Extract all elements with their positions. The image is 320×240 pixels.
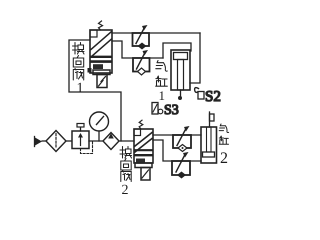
char 阀 [121, 171, 131, 182]
lubricator [103, 133, 119, 150]
valve 1 stripe band 1 [91, 56, 111, 58]
valve 2 pilot box top-left [134, 129, 141, 136]
svg-text:2: 2 [122, 183, 129, 198]
valve 1 diagonal flow lines [91, 32, 112, 50]
cylinder 2 piston [203, 152, 215, 157]
char 阀 [73, 69, 83, 81]
regulator [72, 124, 93, 154]
label 气缸 1 [156, 61, 168, 87]
svg-text:2: 2 [220, 150, 228, 167]
valve 1 stripe band 2 [91, 60, 111, 63]
char 气 [156, 61, 168, 72]
flow control valve 4 [172, 152, 190, 179]
cylinder 2 rod inside [207, 127, 212, 152]
limit switch S3 symbol [152, 103, 163, 115]
cylinder 1 piston [174, 53, 188, 60]
cylinder 2 body [201, 127, 217, 163]
valve 2 stripe band 1 [135, 149, 152, 151]
wire supply branch up to valve 1 [69, 40, 121, 141]
svg-text:S3: S3 [164, 103, 179, 118]
char 缸 small [219, 136, 228, 144]
char 缸 [156, 76, 168, 86]
valve 2 stripe band 2 [135, 154, 152, 156]
flow control valve 2 [133, 50, 150, 75]
valve 1 output port A line [112, 32, 200, 34]
valve 2 spring [139, 120, 143, 129]
svg-text:1: 1 [77, 81, 84, 96]
char 换 [73, 43, 85, 55]
svg-text:1: 1 [159, 88, 166, 103]
wire flow1 to cylinder1 rod end [190, 33, 200, 83]
label 换向阀 1 [73, 43, 85, 81]
valve 1 output port B wire [112, 41, 163, 58]
valve 2 bottom bar [135, 163, 152, 168]
char 向 [73, 56, 83, 68]
valve 1 bottom bar [93, 70, 110, 75]
svg-text:S2: S2 [205, 89, 221, 105]
cylinder 1 rod [178, 60, 184, 91]
wire filter to regulator [66, 140, 72, 142]
valve 1 spring [99, 21, 103, 30]
wire flow2 to cylinder1 cap [163, 43, 191, 58]
label 换向阀 2 [120, 147, 132, 182]
valve 1 small tick box [93, 64, 103, 69]
pressure gauge [90, 112, 109, 141]
directional valve 2 body [134, 129, 153, 163]
valve 1 left port nub [88, 68, 92, 73]
directional valve 1 body [90, 30, 112, 73]
limit switch S2 symbol [195, 88, 204, 99]
valve 2 output port B wire [153, 140, 201, 161]
valve 1 pilot box top-left [90, 30, 97, 37]
label 气缸 2 [219, 124, 228, 144]
cylinder 2 rod [209, 112, 211, 127]
valve 2 small tick box [136, 159, 145, 164]
valve 1 bottom exhaust box [97, 75, 107, 88]
flow control valve 1 [133, 25, 150, 50]
filter F [46, 131, 66, 152]
cylinder 1 rod extension [180, 90, 182, 98]
char 向 [121, 159, 131, 171]
valve 2 diagonal flow lines [135, 133, 152, 147]
flow control valve 3 [173, 126, 191, 152]
wire source to filter [42, 140, 47, 142]
char 气 small [219, 124, 228, 133]
char 换 [120, 147, 132, 159]
valve 2 bottom exhaust box [141, 168, 150, 181]
main air line [89, 140, 134, 142]
cylinder 1 body [171, 50, 190, 90]
air source [35, 137, 43, 147]
cylinder 2 rod flag [210, 114, 215, 121]
valve 2 output port A line [153, 134, 201, 136]
